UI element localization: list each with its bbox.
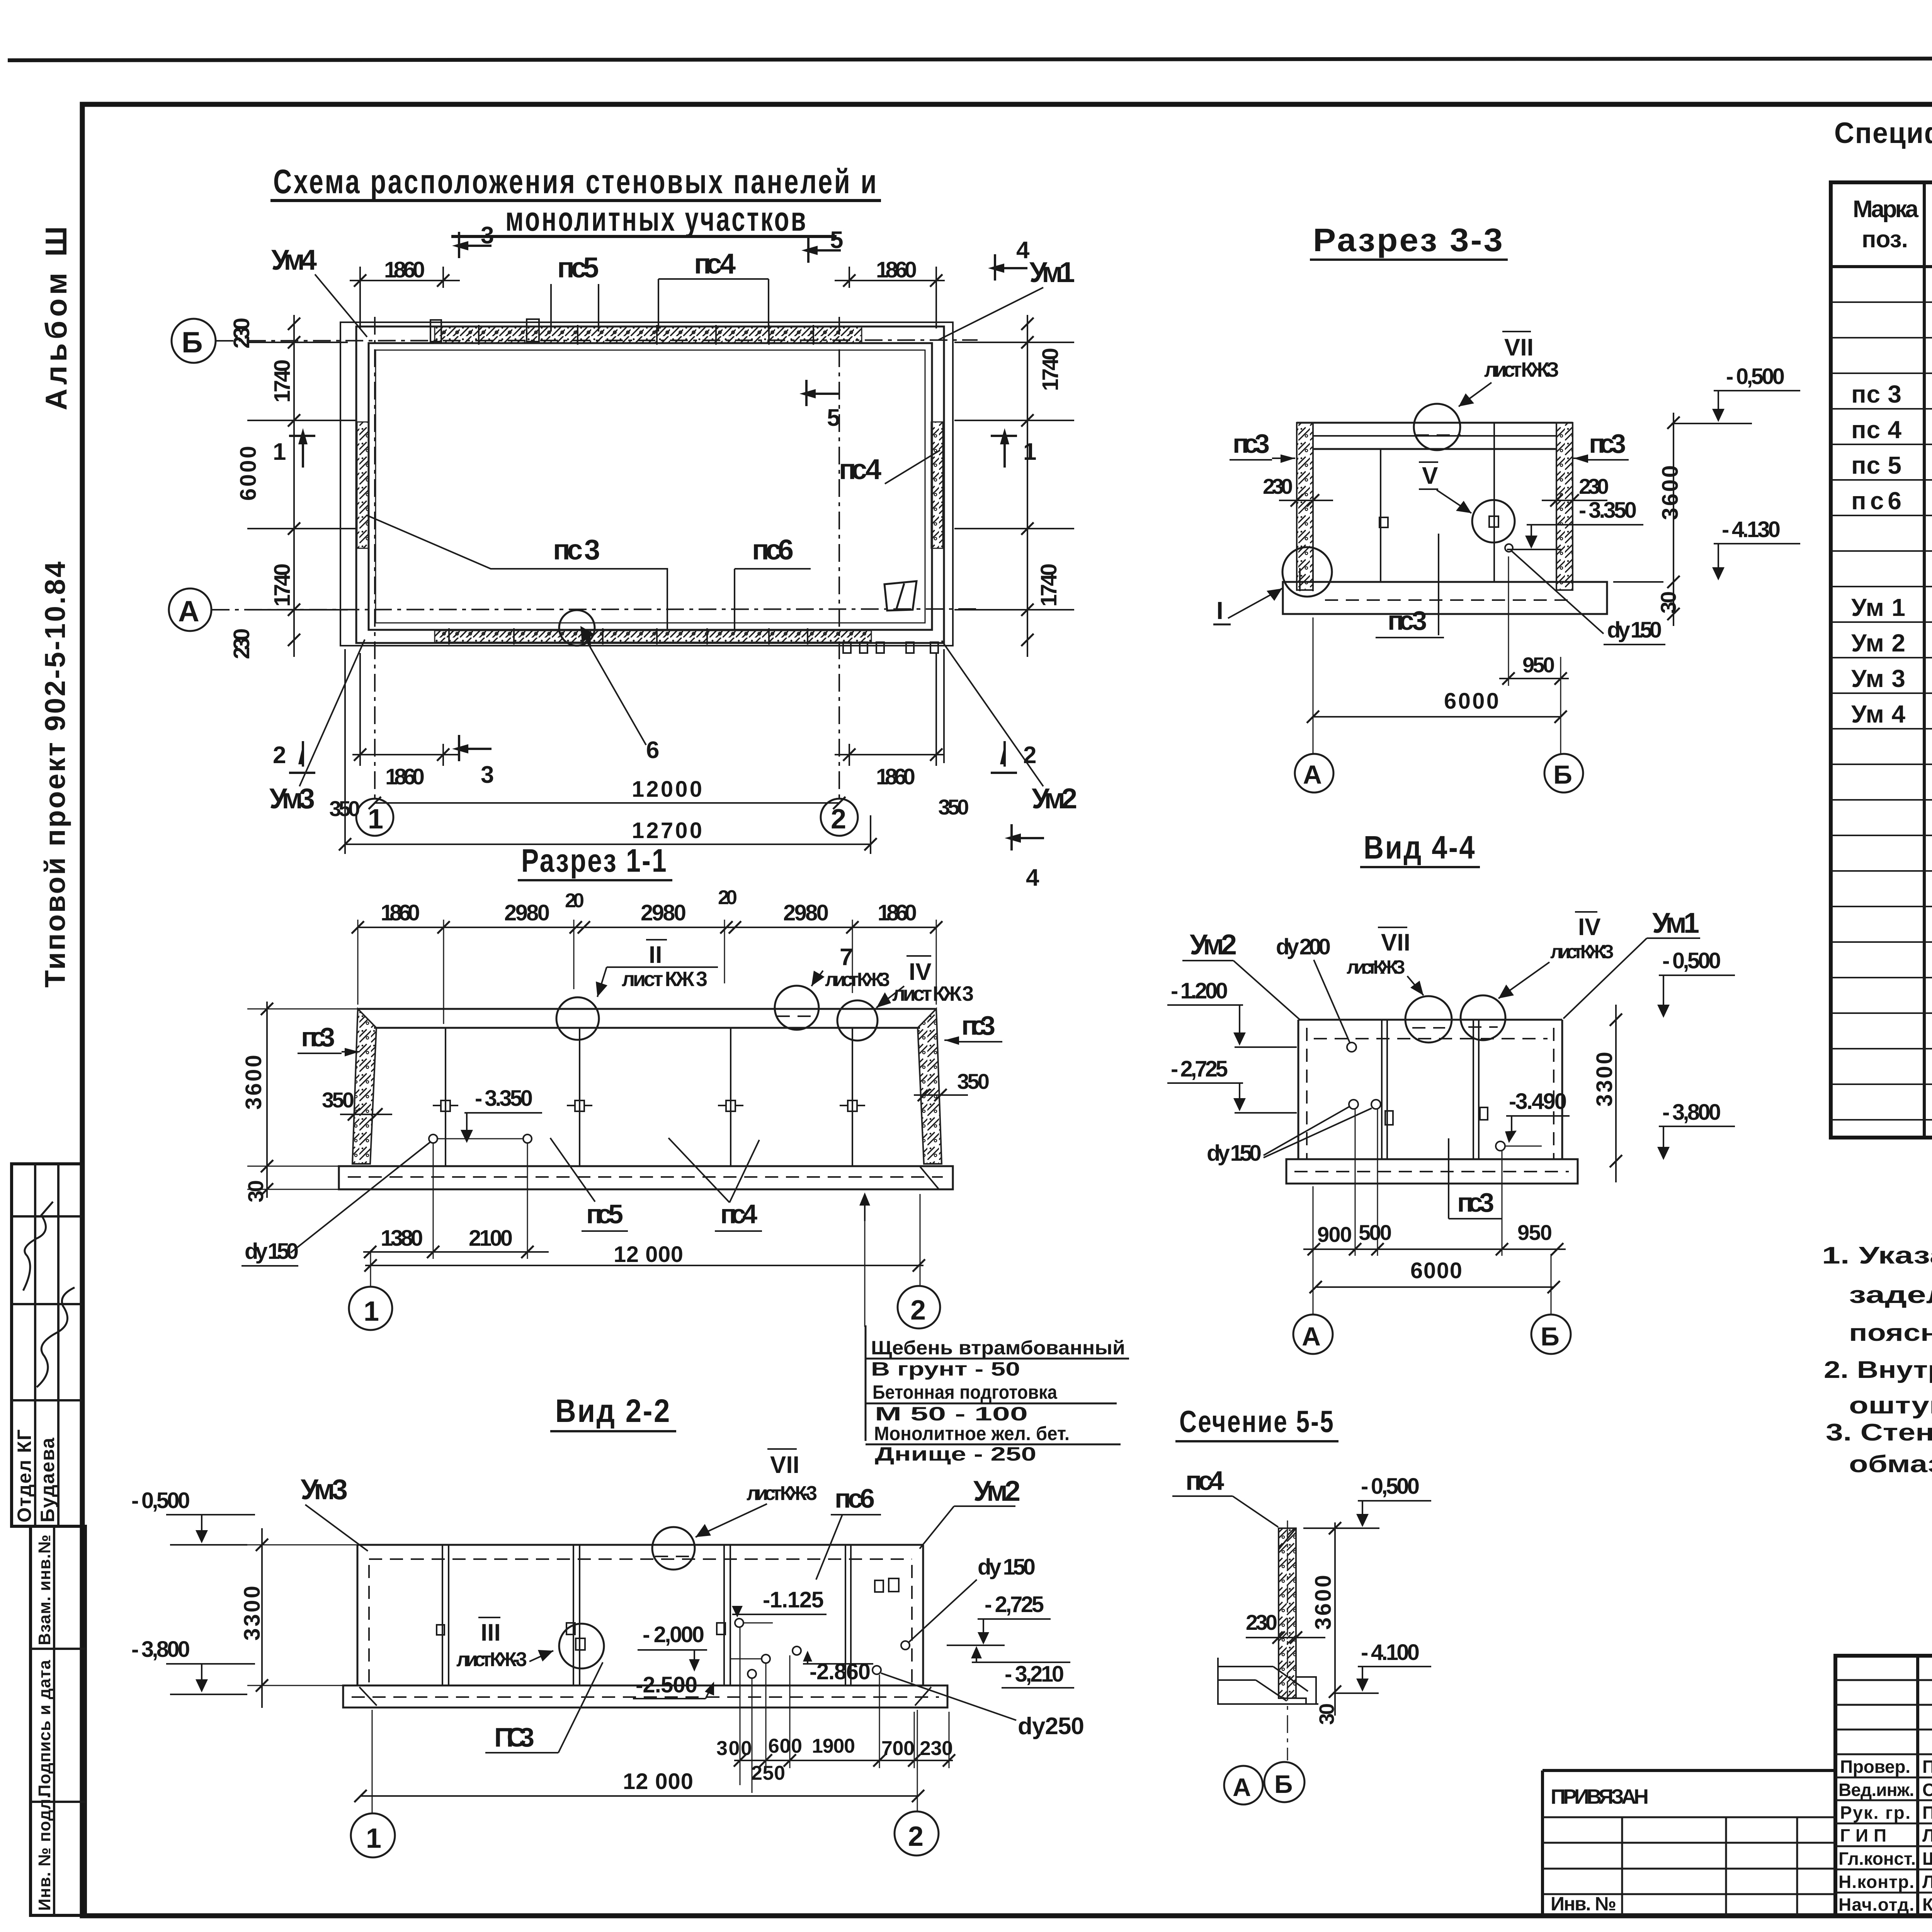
- section top edge: [358, 1008, 936, 1010]
- right wall hatched: [1556, 423, 1573, 590]
- joint ticks on bottom band: [449, 628, 808, 645]
- svg-text:4: 4: [1016, 237, 1030, 264]
- plan wall outer face: [356, 327, 944, 643]
- svg-text:- 2,725: - 2,725: [985, 1592, 1044, 1617]
- svg-text:оштукатурить цементно-песчаны: оштукатурить цементно-песчаным раствором…: [1849, 1392, 1932, 1419]
- section mark 1 right: [1003, 442, 1006, 468]
- personnel small top rows: [1835, 1680, 1932, 1754]
- svg-text:900: 900: [1317, 1222, 1352, 1247]
- svg-text:Сечение 5-5: Сечение 5-5: [1179, 1404, 1335, 1439]
- svg-text:Гл.конст.: Гл.конст.: [1838, 1849, 1916, 1869]
- wall panel strip: [1279, 1528, 1296, 1698]
- view outline: [357, 1544, 923, 1546]
- svg-text:3: 3: [481, 222, 494, 249]
- wall centerline: [1287, 1520, 1288, 1760]
- svg-text:Ум1: Ум1: [1029, 256, 1075, 288]
- svg-text:1740: 1740: [270, 563, 295, 607]
- right wall hatched sloped: [918, 1009, 942, 1164]
- detail circle IV: [837, 1000, 878, 1041]
- personnel columns: [1916, 1656, 1919, 1915]
- node circle 6: [559, 610, 595, 646]
- svg-text:пс 4: пс 4: [839, 453, 881, 485]
- axis line А: [212, 609, 978, 610]
- svg-text:VII: VII: [1504, 334, 1534, 361]
- svg-text:30: 30: [243, 1180, 268, 1202]
- svg-text:Вед.инж.: Вед.инж.: [1838, 1780, 1914, 1800]
- svg-text:Ум2: Ум2: [973, 1475, 1020, 1507]
- spec table outer: [1831, 182, 1932, 1138]
- svg-text:20: 20: [565, 889, 584, 912]
- svg-text:2. Внутренние поверхности мо: 2. Внутренние поверхности монолитных уча…: [1824, 1357, 1932, 1383]
- svg-text:30: 30: [1315, 1703, 1338, 1725]
- svg-text:М 50 - 100: М 50 - 100: [875, 1403, 1028, 1425]
- svg-text:IV: IV: [909, 959, 932, 985]
- svg-text:2: 2: [1023, 742, 1036, 769]
- svg-text:Монолитное жел. бет.: Монолитное жел. бет.: [874, 1423, 1070, 1444]
- svg-text:-1.125: -1.125: [763, 1587, 824, 1612]
- bottom slab: [339, 1166, 953, 1189]
- svg-text:пс5: пс5: [557, 252, 599, 284]
- svg-text:- 3,800: - 3,800: [1662, 1100, 1721, 1125]
- svg-text:- 1.200: - 1.200: [1171, 978, 1228, 1003]
- svg-text:5: 5: [827, 405, 840, 431]
- svg-text:12000: 12000: [632, 777, 702, 802]
- row lines: [1831, 302, 1932, 1120]
- svg-text:Ум2: Ум2: [1190, 929, 1237, 961]
- svg-text:лист КЖ-3: лист КЖ-3: [456, 1648, 527, 1671]
- svg-text:1860: 1860: [381, 900, 420, 925]
- svg-text:- 3,210: - 3,210: [1005, 1662, 1064, 1687]
- svg-text:- 0,500: - 0,500: [1361, 1474, 1420, 1499]
- 3300 dim right: [1615, 1005, 1617, 1182]
- svg-text:лист КЖ-3: лист КЖ-3: [747, 1482, 817, 1505]
- svg-text:пс 4: пс 4: [694, 248, 736, 280]
- svg-text:- 4.100: - 4.100: [1361, 1640, 1420, 1665]
- svg-text:- 2,000: - 2,000: [643, 1622, 704, 1647]
- svg-text:350: 350: [957, 1069, 990, 1094]
- svg-text:300: 300: [716, 1737, 752, 1760]
- svg-text:Б: Б: [182, 326, 203, 359]
- svg-text:-2.500: -2.500: [636, 1672, 697, 1697]
- svg-text:ПРИВЯЗАН: ПРИВЯЗАН: [1551, 1785, 1650, 1808]
- vertical axis 2: [838, 317, 840, 799]
- -3.210 level: [976, 1649, 977, 1662]
- svg-text:Б: Б: [1274, 1770, 1293, 1798]
- svg-text:350: 350: [322, 1088, 354, 1112]
- svg-text:500: 500: [1359, 1220, 1392, 1245]
- left wall hatched sloped: [352, 1009, 376, 1164]
- svg-text:Марка: Марка: [1853, 196, 1919, 223]
- 12700 dimension: [345, 844, 871, 845]
- right wall hatched strip: [931, 422, 943, 548]
- svg-text:1740: 1740: [270, 359, 295, 403]
- svg-text:dy 150: dy 150: [978, 1554, 1036, 1580]
- svg-text:VII: VII: [1381, 929, 1410, 956]
- svg-text:Смыслова: Смыслова: [1922, 1780, 1932, 1800]
- interior joints: [445, 1028, 446, 1166]
- svg-text:1860: 1860: [876, 257, 917, 282]
- leader to notes: [864, 1197, 866, 1221]
- section mark 1 left: [302, 442, 304, 468]
- section mark 2 left bottom: [302, 741, 304, 767]
- vertical axis 1: [374, 317, 376, 799]
- column lines: [1923, 182, 1926, 1138]
- svg-text:Будаева: Будаева: [37, 1437, 58, 1522]
- svg-text:пс 3: пс 3: [1589, 429, 1626, 459]
- svg-text:пс 3: пс 3: [961, 1010, 995, 1041]
- svg-text:Б: Б: [1541, 1322, 1560, 1351]
- svg-text:1900: 1900: [812, 1735, 855, 1757]
- svg-text:обмазать горячим битумом за: обмазать горячим битумом за 2 раза.: [1849, 1451, 1932, 1478]
- dy150 pipe: [1505, 544, 1513, 552]
- svg-text:Ум3: Ум3: [301, 1473, 348, 1505]
- bottom wall hatched band: [435, 631, 871, 642]
- svg-text:1860: 1860: [878, 900, 917, 925]
- -2.860 level: [793, 1646, 801, 1655]
- svg-text:пс 3: пс 3: [1457, 1187, 1494, 1218]
- detail circle II: [556, 997, 599, 1040]
- svg-text:950: 950: [1517, 1220, 1552, 1245]
- svg-text:пс 3: пс 3: [1233, 429, 1270, 459]
- svg-text:пс 3: пс 3: [1851, 380, 1901, 408]
- top dimension line: [358, 927, 936, 928]
- svg-text:1: 1: [364, 1296, 379, 1327]
- svg-text:Типовой проект 902-5-10.84: Типовой проект 902-5-10.84: [39, 560, 71, 988]
- svg-text:230: 230: [1263, 474, 1293, 498]
- inner dashed lines: [369, 1558, 912, 1560]
- svg-text:12700: 12700: [632, 818, 702, 843]
- left wall foot detail: [1300, 568, 1313, 591]
- svg-text:30: 30: [1656, 591, 1680, 614]
- svg-text:2: 2: [910, 1295, 926, 1326]
- small tabs under bottom band: [843, 642, 851, 653]
- 3600 vertical dim: [1673, 413, 1674, 626]
- svg-text:Днище - 250: Днище - 250: [875, 1443, 1036, 1465]
- svg-text:2980: 2980: [641, 900, 686, 925]
- axis circles: [1224, 1766, 1263, 1804]
- detail circle V: [1472, 500, 1515, 543]
- svg-text:IV: IV: [1578, 914, 1601, 940]
- svg-text:2100: 2100: [469, 1226, 513, 1251]
- svg-text:230: 230: [229, 628, 254, 659]
- right dimension chain: [1027, 315, 1028, 657]
- svg-text:I: I: [1216, 597, 1223, 624]
- svg-text:dy 200: dy 200: [1276, 934, 1331, 959]
- materials note block: [865, 1325, 867, 1441]
- section mark 5 inner: [813, 393, 839, 395]
- svg-text:1860: 1860: [384, 257, 425, 282]
- svg-text:Ум1: Ум1: [1652, 907, 1699, 939]
- svg-text:лист КЖЗ: лист КЖЗ: [1347, 956, 1405, 978]
- left wall hatched strip: [357, 422, 369, 548]
- svg-text:лист КЖЗ: лист КЖЗ: [1484, 358, 1559, 381]
- svg-text:Ум 3: Ум 3: [1851, 665, 1905, 692]
- svg-text:6000: 6000: [1410, 1258, 1462, 1283]
- axes: [370, 1252, 371, 1287]
- joint ticks on top band: [479, 325, 813, 345]
- detail circle VII: [1414, 404, 1460, 450]
- svg-text:пс6: пс6: [835, 1483, 875, 1514]
- svg-text:монолитных участков: монолитных участков: [505, 200, 808, 238]
- svg-text:Провер.: Провер.: [1840, 1757, 1910, 1777]
- svg-text:12 000: 12 000: [623, 1769, 693, 1794]
- svg-text:-3.490: -3.490: [1509, 1089, 1567, 1114]
- svg-text:ПС3: ПС3: [494, 1722, 534, 1752]
- axis circle Б: [172, 319, 216, 363]
- joint clips: [433, 1105, 865, 1106]
- left stamp upper block (Отдел КГ / Будаева): [12, 1164, 82, 1526]
- svg-text:Н.контр.: Н.контр.: [1838, 1872, 1914, 1892]
- axes: [372, 1710, 373, 1814]
- svg-text:пс 5: пс 5: [1851, 451, 1901, 479]
- section mark 4 top right: [1002, 267, 1027, 269]
- left vertical dim 3600/30: [266, 1002, 268, 1198]
- joints: [442, 1545, 851, 1685]
- svg-text:Разрез 1-1: Разрез 1-1: [521, 842, 668, 879]
- svg-text:1860: 1860: [876, 764, 915, 789]
- detail circle I: [1282, 547, 1332, 597]
- bottom slab: [1283, 582, 1607, 614]
- svg-text:Красавин: Красавин: [1922, 1895, 1932, 1915]
- detail circle 7: [775, 986, 819, 1030]
- section mark 3 top: [466, 245, 492, 247]
- plan wall inner face: [369, 343, 932, 630]
- svg-text:Ум3: Ум3: [269, 782, 315, 815]
- svg-text:4: 4: [1026, 864, 1039, 891]
- axis circle 2: [821, 799, 858, 836]
- bottom slab: [1286, 1159, 1578, 1184]
- svg-text:20: 20: [718, 886, 737, 909]
- footing / slab fragment: [1218, 1658, 1318, 1705]
- svg-text:III: III: [481, 1619, 501, 1646]
- svg-text:пс6: пс6: [1851, 487, 1901, 515]
- svg-text:- 3.350: - 3.350: [475, 1086, 533, 1111]
- svg-text:950: 950: [1522, 653, 1555, 677]
- left wall hatched: [1297, 423, 1313, 590]
- axis circle 1: [356, 799, 393, 836]
- svg-text:Вид 4-4: Вид 4-4: [1364, 829, 1476, 866]
- header row bottom: [1831, 265, 1932, 268]
- svg-text:А: А: [1233, 1773, 1251, 1801]
- svg-text:dy 150: dy 150: [1607, 617, 1662, 643]
- svg-text:- 0,500: - 0,500: [131, 1488, 190, 1513]
- svg-text:Нач.отд.: Нач.отд.: [1838, 1895, 1914, 1915]
- section mark 4 bottom right: [1019, 837, 1044, 839]
- svg-text:Шапиро: Шапиро: [1922, 1849, 1932, 1869]
- plan outer contour: [340, 322, 953, 646]
- personnel labeled rows: [1835, 1777, 1932, 1893]
- svg-text:Рук. гр.: Рук. гр.: [1840, 1803, 1910, 1823]
- привязан table: [1543, 1769, 1835, 1772]
- svg-text:12 000: 12 000: [614, 1242, 683, 1267]
- svg-text:пояснительную записку.: пояснительную записку.: [1849, 1320, 1932, 1346]
- svg-text:1: 1: [366, 1823, 381, 1854]
- axis circle Б: [1544, 754, 1583, 793]
- top dimension line 1860s: [350, 280, 460, 281]
- svg-text:-2.860: -2.860: [810, 1659, 871, 1684]
- svg-text:Письман: Письман: [1922, 1803, 1932, 1823]
- svg-text:1: 1: [273, 439, 286, 465]
- svg-text:пс 4: пс 4: [720, 1199, 757, 1229]
- svg-text:dy250: dy250: [1018, 1713, 1084, 1740]
- svg-text:6: 6: [646, 737, 659, 764]
- svg-text:Ум 4: Ум 4: [1851, 700, 1905, 728]
- svg-text:dy 150: dy 150: [1207, 1141, 1262, 1166]
- svg-text:А: А: [1302, 1322, 1321, 1351]
- svg-text:dy 150: dy 150: [245, 1239, 299, 1264]
- svg-text:1740: 1740: [1036, 563, 1061, 607]
- svg-text:230: 230: [920, 1737, 953, 1760]
- bottom slab: [343, 1685, 947, 1708]
- svg-text:Разрез 3-3: Разрез 3-3: [1313, 222, 1504, 258]
- svg-text:лист КЖ 3: лист КЖ 3: [892, 982, 974, 1005]
- svg-text:Схема расположения стеновых: Схема расположения стеновых панелей и: [273, 162, 878, 201]
- svg-text:пс 3: пс 3: [301, 1022, 335, 1052]
- svg-text:1: 1: [1023, 439, 1036, 465]
- svg-text:Бетонная подготовка: Бетонная подготовка: [872, 1381, 1058, 1403]
- bottom dimension line 1860s: [352, 754, 460, 755]
- svg-text:2: 2: [908, 1821, 923, 1852]
- svg-text:заделке монолитных участков: заделке монолитных участков и стыков см.: [1849, 1282, 1932, 1308]
- svg-text:- 2,725: - 2,725: [1171, 1056, 1228, 1082]
- svg-text:поз.: поз.: [1862, 226, 1908, 253]
- svg-text:А: А: [1303, 760, 1322, 789]
- svg-text:Альбом Ш: Альбом Ш: [39, 223, 73, 410]
- 12000 dimension: [375, 802, 839, 804]
- svg-text:Левина: Левина: [1922, 1872, 1932, 1892]
- svg-text:Ум 2: Ум 2: [1851, 629, 1905, 657]
- pipe sleeves: [1385, 1111, 1393, 1125]
- top scan edge line: [8, 58, 1932, 60]
- svg-text:1860: 1860: [385, 764, 425, 789]
- svg-text:пс 3: пс 3: [1388, 605, 1427, 636]
- axis line Б: [216, 340, 978, 341]
- left stamp lower block: Взам.инв.№ / Подпись и дата / Инв.№ подл.: [31, 1526, 85, 1915]
- svg-text:- 3.350: - 3.350: [1579, 498, 1637, 523]
- svg-text:1740: 1740: [1038, 348, 1063, 391]
- top wall hatched band: [435, 327, 862, 343]
- 3600 dim: [1334, 1522, 1336, 1716]
- section mark 3 bottom: [466, 748, 492, 750]
- svg-text:А: А: [178, 595, 199, 628]
- axes: [1313, 1186, 1314, 1315]
- svg-text:2: 2: [273, 742, 286, 769]
- svg-text:Ум 1: Ум 1: [1851, 594, 1905, 621]
- svg-text:Спецификация к схеме распол: Спецификация к схеме расположения стенов…: [1834, 117, 1932, 150]
- detail circles: [1405, 996, 1452, 1043]
- svg-text:600: 600: [768, 1735, 802, 1757]
- svg-text:5: 5: [830, 227, 843, 253]
- svg-text:пс 4: пс 4: [1851, 416, 1901, 444]
- svg-text:пс4: пс4: [1185, 1466, 1224, 1496]
- svg-text:3: 3: [481, 762, 494, 788]
- svg-text:Б: Б: [1553, 760, 1572, 789]
- svg-text:1. Указания по монтажу стен: 1. Указания по монтажу стеновых панелей …: [1822, 1242, 1932, 1269]
- svg-text:230: 230: [1579, 474, 1609, 498]
- svg-text:700: 700: [881, 1737, 915, 1760]
- view outline: [1298, 1019, 1562, 1021]
- section mark 2 right bottom: [1003, 741, 1006, 767]
- svg-text:230: 230: [229, 318, 254, 349]
- detail circle VII: [652, 1527, 695, 1570]
- axis lines to circles: [1313, 617, 1314, 753]
- signature scribble: [23, 1202, 53, 1291]
- interior panel joints: [1380, 449, 1381, 582]
- svg-text:Взам. инв.№: Взам. инв.№: [35, 1534, 54, 1645]
- small joint blocks on top band: [430, 320, 441, 342]
- axis circle А: [1295, 754, 1333, 793]
- svg-text:1380: 1380: [381, 1226, 423, 1251]
- svg-text:Ум2: Ум2: [1032, 782, 1077, 815]
- svg-text:350: 350: [938, 795, 969, 819]
- svg-text:Инв. №: Инв. №: [1551, 1893, 1616, 1915]
- svg-text:пс 3: пс 3: [553, 534, 600, 566]
- section mark 5 top: [815, 249, 841, 252]
- svg-text:Отдел КГ: Отдел КГ: [14, 1429, 35, 1522]
- svg-text:Щебень втрамбованный: Щебень втрамбованный: [871, 1337, 1125, 1359]
- svg-text:Инв. № подл.: Инв. № подл.: [35, 1793, 54, 1911]
- joints: [1382, 1020, 1479, 1159]
- svg-text:В грунт - 50: В грунт - 50: [871, 1358, 1020, 1380]
- section top beam: [1297, 422, 1573, 424]
- svg-text:- 3,800: - 3,800: [131, 1637, 190, 1662]
- svg-text:ГИП: ГИП: [1840, 1825, 1886, 1845]
- main title block outline: [1835, 1656, 1932, 1915]
- left dimension chain: [293, 315, 295, 657]
- svg-text:пс6: пс6: [752, 534, 794, 566]
- svg-text:Ум4: Ум4: [271, 244, 317, 276]
- svg-text:7: 7: [840, 944, 853, 971]
- svg-text:- 0,500: - 0,500: [1662, 948, 1721, 973]
- svg-text:Вид 2-2: Вид 2-2: [555, 1393, 671, 1429]
- svg-text:пс 5: пс 5: [586, 1199, 623, 1229]
- svg-text:лист КЖ 3: лист КЖ 3: [622, 968, 707, 991]
- svg-text:230: 230: [1246, 1610, 1277, 1634]
- svg-text:II: II: [649, 942, 662, 968]
- svg-text:лист КЖЗ: лист КЖЗ: [1550, 941, 1614, 963]
- svg-text:V: V: [1422, 463, 1438, 489]
- svg-text:- 4.130: - 4.130: [1722, 517, 1781, 542]
- pipe holes: [429, 1134, 437, 1143]
- joint clip: [1379, 517, 1388, 527]
- extension lines bottom: [344, 649, 346, 854]
- svg-text:3. Стеновые панели , соприкас: 3. Стеновые панели , соприкасающиеся с г…: [1826, 1419, 1932, 1446]
- svg-text:2980: 2980: [504, 900, 550, 925]
- svg-text:250: 250: [751, 1762, 785, 1784]
- svg-text:2980: 2980: [783, 900, 829, 925]
- axis circle А: [169, 588, 211, 631]
- svg-text:Подпись и дата: Подпись и дата: [35, 1660, 54, 1797]
- svg-text:VII: VII: [770, 1452, 799, 1478]
- joint clips: [437, 1625, 444, 1635]
- frame bottom extension under stamp: [31, 1914, 82, 1917]
- svg-text:Письман: Письман: [1922, 1757, 1932, 1777]
- svg-text:- 0,500: - 0,500: [1726, 364, 1785, 389]
- hatch panel symbol bottom right: [884, 581, 917, 611]
- svg-text:Левина: Левина: [1922, 1825, 1932, 1845]
- svg-text:лист КЖ3: лист КЖ3: [825, 969, 890, 990]
